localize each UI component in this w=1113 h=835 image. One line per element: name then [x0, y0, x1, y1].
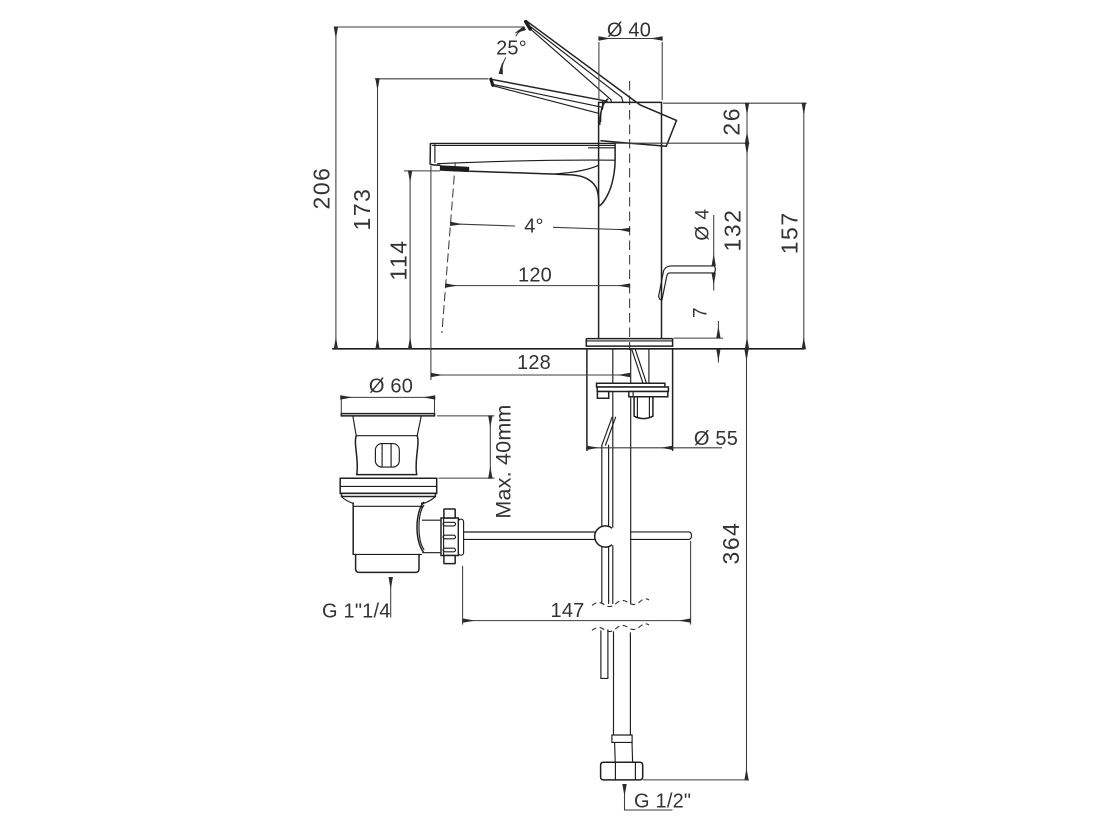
dimension dia 40	[599, 19, 662, 100]
open handle lever (25 deg)	[526, 21, 677, 121]
svg-text:4°: 4°	[524, 216, 544, 238]
dimension 114	[386, 171, 440, 349]
dimension dia 60	[341, 375, 435, 413]
handle hub (tilted cap)	[601, 120, 677, 146]
svg-text:120: 120	[518, 264, 552, 286]
svg-text:Ø 4: Ø 4	[693, 208, 714, 240]
dimension 206	[309, 27, 525, 349]
pop-up rod lower end	[601, 630, 608, 679]
pop-up rod (rear, horizontal with bend)	[659, 266, 716, 300]
counter / mounting plane line	[332, 348, 804, 350]
svg-text:G 1/2": G 1/2"	[634, 791, 691, 813]
spout	[430, 144, 615, 206]
svg-text:173: 173	[349, 188, 375, 231]
dimension dia 4 (pop-up rod)	[693, 208, 714, 290]
threaded shank	[634, 397, 653, 419]
center line (faucet axis, dashed)	[629, 81, 631, 350]
svg-text:206: 206	[309, 167, 335, 210]
lever hinge arcs	[600, 99, 608, 124]
dimension 157	[777, 103, 804, 349]
dimension 120	[446, 264, 630, 286]
svg-text:Ø 40: Ø 40	[607, 19, 651, 41]
svg-text:132: 132	[720, 209, 746, 252]
supply pipe (vertical)	[613, 392, 631, 604]
closed handle lever	[491, 79, 607, 113]
under-counter flange envelope (dia 55)	[587, 349, 673, 450]
drain flange	[340, 478, 437, 503]
svg-text:114: 114	[386, 239, 412, 280]
svg-text:Ø 55: Ø 55	[694, 428, 738, 450]
svg-text:128: 128	[517, 352, 551, 374]
drain lower barrel	[353, 503, 422, 572]
pipe break (upper zigzag)	[592, 599, 649, 607]
supply pipe lower section	[612, 632, 633, 762]
dimension 128	[431, 166, 630, 381]
svg-text:7: 7	[691, 307, 712, 318]
faucet base plate	[586, 339, 672, 347]
label G 1/2"	[625, 785, 692, 813]
svg-text:Ø 60: Ø 60	[369, 375, 413, 397]
drain tee stub	[422, 520, 440, 553]
dimension 26	[615, 103, 807, 143]
dimension 364	[643, 349, 749, 780]
svg-text:157: 157	[777, 211, 803, 254]
aerator outlet	[440, 165, 469, 172]
dimension 4 degrees	[451, 216, 630, 238]
pull-rod diagonal (lower)	[602, 417, 616, 445]
dimension 147	[463, 541, 691, 625]
svg-text:G 1"1/4: G 1"1/4	[322, 601, 391, 623]
drain upper barrel with window	[355, 436, 418, 475]
pipe break (lower zigzag)	[592, 624, 649, 632]
horizontal linkage rod (right segment)	[630, 532, 691, 540]
svg-text:26: 26	[719, 107, 745, 136]
dimension 173	[349, 79, 488, 349]
linkage ball joint	[595, 526, 612, 547]
G 1/2 connection nut	[601, 762, 643, 780]
horizontal linkage rod (left segment to drain)	[464, 532, 596, 539]
pop-up vertical rod	[602, 445, 609, 603]
drain waste cap	[341, 414, 434, 436]
label G 1"1/4	[322, 578, 391, 623]
dimension 132	[720, 143, 747, 349]
svg-text:25°: 25°	[496, 38, 527, 60]
pull-rod diagonal (upper, behind counter)	[632, 350, 647, 383]
svg-text:364: 364	[718, 522, 744, 565]
svg-text:Max. 40mm: Max. 40mm	[492, 404, 516, 518]
mounting nut	[629, 392, 668, 397]
4-degree tilt axis (dash-dot)	[442, 163, 455, 333]
drain tee arc	[417, 502, 424, 552]
dimension dia 55	[587, 428, 738, 450]
horseshoe washer	[597, 383, 669, 398]
dimension 7	[673, 307, 723, 363]
mounting shank edges above washer	[613, 349, 649, 383]
faucet body column	[599, 102, 662, 338]
dimension 25 degrees (angle stubs)	[496, 28, 527, 73]
dimension Max. 40mm	[437, 404, 516, 518]
svg-text:147: 147	[551, 600, 585, 622]
linkage spline nut	[441, 509, 464, 564]
